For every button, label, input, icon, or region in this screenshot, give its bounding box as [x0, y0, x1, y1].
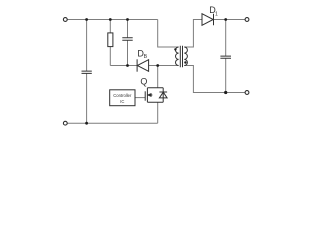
- svg-text:Q: Q: [140, 76, 147, 86]
- svg-text:IC: IC: [120, 99, 124, 104]
- svg-text:B: B: [144, 54, 148, 60]
- svg-text:1: 1: [215, 11, 218, 17]
- svg-text:Controller: Controller: [113, 93, 132, 98]
